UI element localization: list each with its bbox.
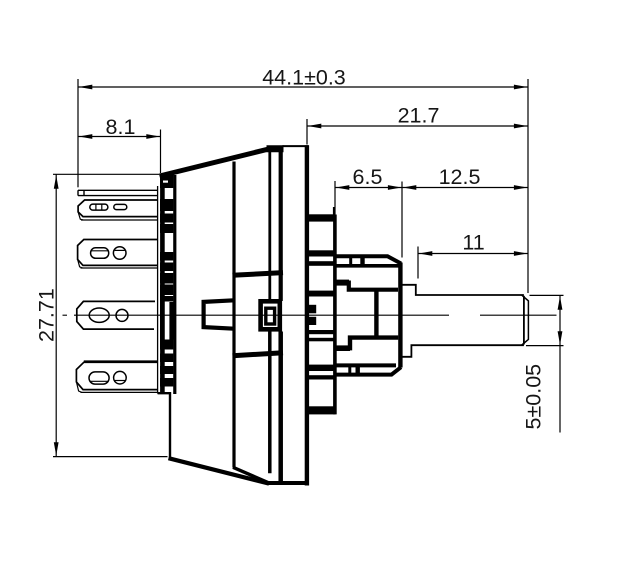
terminal 2 slot hole <box>91 248 109 258</box>
shaft collar bottom step <box>403 345 524 357</box>
body inner lower bar <box>233 353 284 356</box>
svg-text:21.7: 21.7 <box>398 104 440 128</box>
dimension 44.1±0.3 overall width <box>78 86 528 88</box>
extension line top y174 <box>53 173 159 175</box>
plate right edge <box>333 215 337 415</box>
bushing bore top <box>337 283 399 290</box>
dimension 8.1 terminal depth <box>78 136 161 138</box>
terminal 2 outline <box>78 240 157 266</box>
bushing bottom second edge <box>336 367 401 374</box>
body top thick bar <box>267 145 284 152</box>
bushing bore bottom <box>337 338 399 349</box>
body left strip tabs <box>160 175 173 189</box>
svg-text:44.1±0.3: 44.1±0.3 <box>262 66 346 90</box>
svg-text:11: 11 <box>462 231 484 255</box>
body top thin edge <box>283 145 309 147</box>
svg-text:8.1: 8.1 <box>106 115 136 139</box>
body right edge tabs <box>308 305 316 314</box>
body left strip thin edge <box>157 186 159 394</box>
centerline <box>63 314 68 316</box>
terminal 1 slot hole <box>90 204 108 210</box>
top thin strip <box>78 190 158 195</box>
dimension 11 shaft length <box>418 253 528 255</box>
body right edge <box>305 145 309 485</box>
body inner vertical 2 upper <box>268 152 271 299</box>
shaft collar top step <box>403 285 524 295</box>
extension line x335 <box>334 181 336 215</box>
body left middle tab <box>204 300 234 328</box>
body inner vertical 1 <box>232 162 235 468</box>
body bottom edge <box>267 481 307 485</box>
terminal 1 round hole <box>114 204 127 209</box>
terminal 2 round hole <box>113 247 126 260</box>
extension line y295.4 <box>530 294 564 296</box>
svg-text:27.71: 27.71 <box>35 288 59 342</box>
body left strip inner bar <box>160 176 165 392</box>
shaft end <box>522 295 529 345</box>
center boss outer square <box>261 301 280 329</box>
body inner vertical 3 lower <box>278 332 283 482</box>
body lower-left edge <box>158 393 170 457</box>
terminal 1 outline <box>78 200 157 217</box>
body inner bottom slant <box>233 467 270 483</box>
terminal 3 outline <box>77 301 155 329</box>
center boss inner square <box>266 308 275 324</box>
bushing right edge <box>398 263 402 368</box>
terminal 3 round hole <box>116 309 128 321</box>
extension line x418 <box>417 247 419 279</box>
body inner vertical 3 upper <box>279 150 283 302</box>
extension line right x528 <box>527 79 529 293</box>
extension line y345.8 <box>526 345 564 347</box>
terminal 4 outline <box>76 362 157 389</box>
body left strip right edge <box>173 175 176 394</box>
extension line x307 <box>306 119 308 145</box>
extension line left x78 <box>77 79 79 187</box>
dimension 21.7 <box>307 125 528 127</box>
dimension 5±0.05 shaft flat <box>559 296 561 433</box>
svg-text:5±0.05: 5±0.05 <box>522 364 546 430</box>
terminal 4 round hole <box>114 371 127 384</box>
bushing bottom edge <box>337 363 397 367</box>
dimension 12.5 <box>402 187 528 189</box>
svg-text:12.5: 12.5 <box>439 165 481 189</box>
extension line x402 divider <box>401 182 403 258</box>
bushing inner slot <box>374 291 378 337</box>
body bottom slanted edge <box>169 458 270 483</box>
bushing top second edge <box>336 264 400 268</box>
dimension 6.5 <box>335 187 402 189</box>
extension line x160.5 <box>160 130 162 174</box>
extension line bottom y456.5 <box>53 456 168 458</box>
bushing top edge <box>337 256 402 263</box>
body inner vertical 2 lower <box>268 332 272 474</box>
body inner upper bar <box>233 273 284 276</box>
dimension 27.71 overall height <box>55 175 57 457</box>
body top slanted edge <box>160 149 268 176</box>
terminal 3 slot hole <box>89 308 109 322</box>
plate right edge thin top <box>333 207 335 218</box>
plate rungs <box>307 214 336 221</box>
terminal 4 slot hole <box>89 372 109 384</box>
svg-text:6.5: 6.5 <box>353 165 383 189</box>
